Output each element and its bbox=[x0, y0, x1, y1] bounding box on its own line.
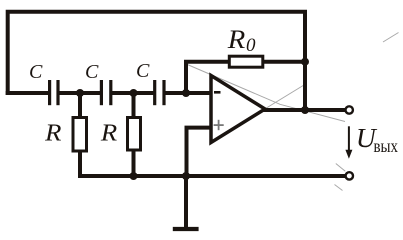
wire R2 bottom to bottom rail bbox=[132, 149, 136, 176]
op-amp U1 bbox=[211, 76, 265, 143]
arrow for Uout bbox=[348, 126, 350, 151]
resistor R2 bbox=[128, 118, 141, 151]
capacitor C3 bbox=[153, 80, 156, 105]
svg-text:R: R bbox=[100, 120, 117, 147]
capacitor C1 bbox=[48, 80, 51, 105]
wire: ground drop bbox=[184, 176, 188, 229]
svg-text:R: R bbox=[44, 120, 61, 147]
wire: non-inverting input to bottom rail bbox=[187, 128, 211, 176]
op-amp plus sign bbox=[214, 124, 224, 126]
node: junction dot after C2 bbox=[130, 89, 138, 97]
wire R1 bottom to bottom rail bbox=[80, 150, 346, 176]
svg-text:C: C bbox=[136, 60, 150, 82]
svg-text:C: C bbox=[29, 61, 43, 83]
svg-text:C: C bbox=[85, 61, 99, 83]
wire: outer feedback loop (left vertical, top wire, right vertical) bbox=[8, 12, 305, 110]
wire: op-amp output bbox=[263, 108, 346, 112]
node: junction dot R2 on bottom rail bbox=[130, 172, 138, 180]
capacitor C2 bbox=[100, 80, 103, 105]
op-amp minus sign bbox=[214, 91, 221, 94]
node: junction dot inverting input bbox=[182, 89, 190, 97]
wire: vertical drop to resistor R1 bbox=[78, 93, 82, 118]
wire C2 to C3 bbox=[111, 91, 155, 95]
wire R0 to right vertical bbox=[263, 60, 307, 64]
svg-text:0: 0 bbox=[246, 35, 256, 56]
wire C3 to op-amp inverting input bbox=[164, 91, 211, 95]
node: junction dot output bbox=[301, 106, 309, 114]
node: junction dot ground on bottom rail bbox=[182, 172, 190, 180]
wire: input to first capacitor bbox=[6, 91, 49, 95]
terminal: output bottom bbox=[346, 172, 353, 179]
node: junction dot R0 right bbox=[301, 58, 309, 66]
svg-text:вых: вых bbox=[374, 136, 399, 156]
scan artifact diagonal below bottom terminal bbox=[335, 185, 343, 191]
scan artifact diagonal line B from apex up right bbox=[259, 85, 304, 113]
terminal: output top bbox=[346, 106, 353, 113]
node: junction dot after C1 bbox=[76, 89, 84, 97]
wire C1 to C2 bbox=[58, 91, 101, 95]
scan artifact diagonal line A through op-amp bbox=[185, 64, 345, 122]
resistor R1 bbox=[73, 118, 87, 152]
wire: vertical drop to resistor R2 bbox=[132, 93, 136, 118]
resistor R0 bbox=[229, 56, 262, 67]
scan artifact diagonal top right corner bbox=[383, 33, 399, 43]
ground bbox=[173, 227, 199, 231]
wire: feedback branch up from inverting node bbox=[186, 62, 229, 95]
scan artifact diagonal above bottom terminal bbox=[336, 164, 346, 172]
svg-text:R: R bbox=[227, 24, 246, 54]
